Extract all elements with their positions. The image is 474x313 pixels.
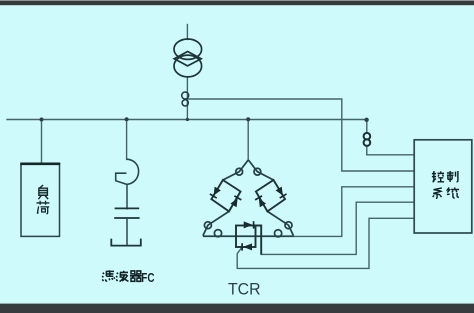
thyristor block right (rotated loop) bbox=[256, 180, 285, 211]
node: load tap junction bbox=[40, 118, 44, 122]
wire: filter drop bbox=[126, 120, 128, 160]
transformer T1 (two windings) bbox=[174, 39, 202, 77]
inductor loop (left leg top) bbox=[236, 168, 243, 175]
TCR delta: apex split bbox=[203, 160, 294, 237]
node: bus end junction bbox=[364, 118, 368, 122]
node: filter tap junction bbox=[125, 117, 129, 121]
thyristor valve B2 (bottom, pointing left) bbox=[242, 243, 252, 250]
wire: left block to bottom-left corner (through loop) bbox=[203, 211, 229, 235]
label: 滤 (filter char 1) bbox=[102, 270, 115, 281]
wire: capacitor to ground cup bbox=[126, 218, 128, 245]
thyristor block bottom (square loop) bbox=[236, 226, 256, 248]
capacitor C (plate 2) bbox=[114, 217, 139, 219]
capacitor C (plate 1) bbox=[115, 207, 140, 209]
wire: TCR gate line C (input 5) bbox=[237, 218, 414, 268]
thyristor valve L1 bbox=[210, 186, 221, 198]
label: 器 (filter char 3) bbox=[130, 271, 142, 281]
wire: bus CT drop bbox=[366, 120, 368, 155]
thyristor block bottom (right parallel path) bbox=[256, 226, 262, 255]
wire: TCR drop bbox=[247, 120, 249, 161]
wire: load drop bbox=[41, 120, 43, 164]
inductor loop (right leg top) bbox=[254, 168, 261, 175]
current transformer CT2 (bus end) bbox=[364, 133, 371, 146]
thyristor valve R1 bbox=[275, 186, 286, 198]
inductor loop (bottom left) bbox=[214, 230, 221, 237]
top dark bar bbox=[0, 0, 474, 1]
label: 控 (control char 1) bbox=[432, 171, 444, 182]
inductor loop (bottom right) bbox=[275, 230, 282, 237]
wire: TCR gate line A (input 3) bbox=[294, 187, 415, 237]
label: 波 (filter char 2) bbox=[116, 271, 128, 282]
thyristor valve R2 bbox=[255, 196, 266, 208]
thyristor block left (rotated loop) bbox=[211, 180, 240, 211]
filter branch: reactor L (hook symbol) bbox=[116, 159, 139, 184]
label: 统 (control char 4) bbox=[447, 188, 459, 199]
wire: delta bottom conductor bbox=[203, 235, 294, 237]
thyristor valve B1 (top, pointing right) bbox=[244, 221, 254, 228]
current transformer CT1 (under transformer) bbox=[182, 92, 189, 106]
svg-text:FC: FC bbox=[141, 271, 154, 285]
inductor loop (left leg bottom) bbox=[204, 222, 211, 229]
label: 负 (load char 1) bbox=[38, 185, 48, 199]
wire: main bus bbox=[7, 119, 367, 121]
wire: transformer bottom lead bbox=[186, 77, 188, 120]
wire: transformer top lead bbox=[186, 25, 188, 40]
wire: CT1 signal to control (input 2) bbox=[186, 99, 414, 171]
wire: TCR gate line B (input 4) bbox=[261, 202, 414, 254]
svg-text:TCR: TCR bbox=[228, 280, 261, 299]
node: TCR tap junction bbox=[246, 117, 250, 121]
ground cup symbol bbox=[111, 239, 141, 246]
wire: apex to right block (through loop) bbox=[248, 160, 273, 180]
bottom dark bar bbox=[0, 304, 474, 313]
wire: reactor to capacitor bbox=[126, 184, 128, 209]
label: 系 (control char 3) bbox=[433, 188, 442, 198]
control system box bbox=[414, 140, 472, 233]
wire: bus CT signal to control (input 1) bbox=[367, 154, 414, 156]
wire: apex to left block (through loop) bbox=[223, 160, 248, 180]
label: 荷 (load char 2) bbox=[36, 201, 49, 214]
load box bbox=[20, 164, 60, 237]
inductor loop (right leg bottom) bbox=[285, 222, 292, 229]
thyristor valve L2 bbox=[230, 196, 241, 208]
label: 制 (control char 2) bbox=[447, 171, 458, 182]
node: transformer junction bbox=[186, 118, 189, 121]
wire: right block to bottom-right corner (through loop) bbox=[267, 211, 293, 235]
